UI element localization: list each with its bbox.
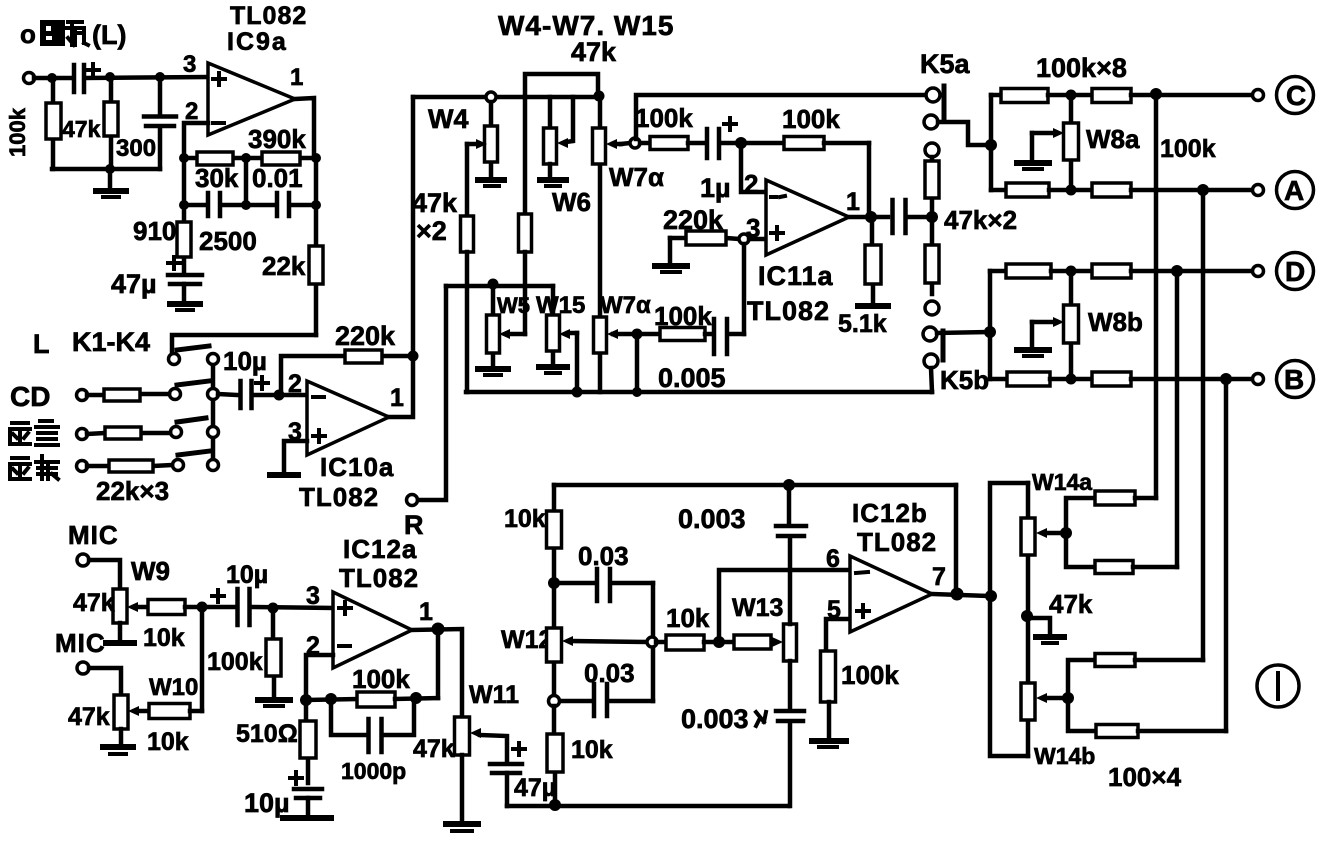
- capacitor 47u electrolytic: [168, 257, 202, 302]
- potentiometer W14a label: [1032, 469, 1092, 495]
- junction dot A row riser: [1197, 184, 1209, 196]
- pin 3 label IC9a: [183, 51, 196, 78]
- ground (100k bias): [258, 700, 290, 706]
- svg-text:47k: 47k: [1049, 589, 1093, 619]
- resistor 100k (B row right): [1092, 372, 1253, 386]
- part label IC12a: [343, 534, 417, 564]
- wire tone bottom bus: [466, 390, 932, 395]
- ground (W6): [540, 164, 566, 186]
- resistor 100 (D to W14a): [1066, 533, 1177, 574]
- svg-text:6: 6: [826, 545, 840, 573]
- junction dot W7a top: [594, 91, 605, 102]
- svg-text:W8a: W8a: [1086, 124, 1140, 154]
- svg-text:47µ: 47µ: [111, 269, 157, 299]
- wire pin3: [749, 237, 766, 242]
- svg-text:100k: 100k: [635, 103, 693, 133]
- junction dot W14a wiper: [1060, 527, 1072, 539]
- wire W10 10k riser to node: [200, 607, 205, 711]
- potentiometer W13: [734, 624, 797, 661]
- svg-text:390k: 390k: [248, 124, 306, 154]
- resistor 5.1k: [865, 221, 881, 303]
- svg-text:220k: 220k: [335, 321, 396, 351]
- svg-text:47k: 47k: [62, 116, 101, 142]
- svg-text:910: 910: [133, 216, 176, 246]
- value label 1000p: [341, 758, 406, 784]
- value label 47k (W11): [413, 735, 455, 763]
- value label 10k (series): [666, 603, 710, 633]
- svg-text:IC11a: IC11a: [758, 261, 834, 291]
- capacitor 0.01: [277, 193, 289, 216]
- svg-text:C: C: [1286, 80, 1306, 111]
- terminal CD input: [77, 390, 88, 401]
- svg-text:2: 2: [288, 370, 302, 398]
- junction dot B row riser: [1220, 373, 1232, 385]
- wire riser D: [1175, 271, 1180, 567]
- wire W14 input bracket: [990, 483, 1028, 756]
- potentiometer W15 label: [536, 292, 585, 319]
- resistor 22k (CD): [87, 389, 169, 401]
- switch contacts left column: [169, 354, 184, 471]
- junction dot 300 top: [155, 72, 165, 82]
- junction dot feedback left: [300, 694, 312, 706]
- terminal MIC 2: [77, 662, 89, 674]
- resistor 510 ohm: [300, 700, 316, 783]
- svg-text:W13: W13: [732, 594, 783, 622]
- svg-text:W11: W11: [469, 681, 519, 709]
- svg-text:TL082: TL082: [230, 2, 307, 30]
- resistor 100k (0.005 row): [642, 328, 711, 341]
- wire feedback row1: [184, 156, 316, 161]
- svg-text:1: 1: [390, 384, 404, 412]
- junction circle twin-T left bottom: [549, 696, 560, 707]
- switch K5b contact bottom: [924, 354, 938, 368]
- svg-text:K5a: K5a: [920, 49, 971, 79]
- junction dot 47k top: [105, 72, 115, 82]
- svg-text:10k: 10k: [147, 728, 189, 756]
- switch K5b contact top: [923, 327, 937, 341]
- capacitor 0.003 (bottom): [776, 661, 804, 806]
- value label 2500: [199, 226, 257, 256]
- junction dot W14 mid: [1021, 610, 1033, 622]
- svg-text:A: A: [1284, 175, 1304, 206]
- resistor 100k (IC12b pin5): [821, 651, 836, 738]
- part label TL082 (IC12b): [857, 527, 937, 557]
- wire pin5 to 100k: [826, 619, 850, 651]
- capacitor 10u (+ to IC10a): [241, 377, 269, 408]
- value label 100k x8: [1036, 53, 1127, 83]
- svg-text:W4: W4: [428, 104, 469, 134]
- wire W7a chain vertical: [598, 96, 603, 392]
- value label 22k: [262, 251, 306, 281]
- junction dot pin2 node: [274, 390, 285, 401]
- potentiometer W5 47k: [487, 289, 526, 366]
- resistor 100k (IC12a bias): [266, 608, 281, 697]
- junction dot bracket input: [985, 590, 997, 602]
- wire node up to K5a bus: [636, 95, 926, 139]
- svg-text:(L): (L): [92, 20, 126, 50]
- value label 0.03 (upper): [578, 541, 629, 571]
- svg-text:0.003: 0.003: [681, 704, 749, 734]
- pin 3 label IC12a: [306, 582, 320, 610]
- resistor 100 (A to W14b): [1068, 654, 1203, 699]
- switch contacts right column: [208, 354, 219, 471]
- value label 220k (IC11a): [663, 205, 724, 235]
- svg-text:W6: W6: [552, 187, 591, 217]
- svg-text:10µ: 10µ: [244, 788, 290, 818]
- svg-text:2500: 2500: [199, 226, 257, 256]
- value label 100k (bias): [207, 648, 263, 676]
- wire W11 bottom to ground: [460, 755, 465, 820]
- value label 100k (rotated): [5, 107, 30, 157]
- ground (IC10a pin3): [270, 472, 298, 478]
- potentiometer W11 47k: [455, 717, 508, 761]
- potentiometer W13 label: [732, 594, 783, 622]
- pin 2 label IC10a: [288, 370, 302, 398]
- svg-text:3: 3: [183, 51, 196, 78]
- value label 22k x3: [96, 476, 169, 506]
- value label 100k (risers): [1160, 135, 1216, 163]
- junction dot IC12b output: [951, 588, 964, 601]
- junction dot 47k x2 mid: [926, 211, 938, 223]
- wire R terminal up to W5/W15 bus: [418, 286, 446, 500]
- svg-text:IC12a: IC12a: [343, 534, 417, 564]
- ground (W11): [446, 824, 478, 831]
- resistor 100k (B row left): [990, 372, 1092, 386]
- svg-text:100k: 100k: [782, 104, 840, 134]
- svg-text:TL082: TL082: [299, 482, 379, 512]
- potentiometer W14a 47k: [1021, 483, 1063, 614]
- svg-text:22k×3: 22k×3: [96, 476, 169, 506]
- resistor 47k (left of x2): [461, 216, 474, 392]
- switch K1 lever: [177, 346, 209, 350]
- value label 10u (IC12a input): [226, 561, 268, 589]
- potentiometer W6 top lead: [548, 97, 553, 128]
- junction dots bottom bus: [572, 387, 643, 398]
- wire top staple: [525, 74, 598, 97]
- pin 3 label IC11a: [746, 213, 760, 243]
- junction dot feedback/output: [408, 351, 419, 362]
- junction dot bottom bus: [549, 799, 561, 811]
- node label 录音: [10, 421, 58, 445]
- wire bus to 10u cap: [218, 394, 237, 395]
- node label R: [404, 510, 424, 540]
- value label 47u: [111, 269, 157, 299]
- svg-text:47k: 47k: [68, 703, 110, 731]
- capacitor 0.005: [714, 319, 744, 354]
- value label 0.003 (top): [678, 504, 746, 534]
- value label 10k (top left): [504, 505, 546, 533]
- value label 47k (W10): [68, 703, 110, 731]
- junction circle W12 wiper node: [647, 637, 657, 647]
- value label 910: [133, 216, 176, 246]
- pin 1 label IC11a: [846, 188, 860, 216]
- wire MIC1 to W9: [89, 560, 120, 589]
- junction dots feedback row1: [179, 153, 321, 163]
- wire W4 wiper to 47k-left: [465, 144, 470, 216]
- value label 220k: [335, 321, 396, 351]
- junction dot twin-T left top: [548, 577, 560, 589]
- junction dot at 100k top: [47, 73, 57, 83]
- ground (W8b wiper): [1017, 322, 1049, 356]
- potentiometer W15 47k: [547, 286, 578, 364]
- resistor 10k (twin-T bottom left): [547, 706, 563, 805]
- ground (5.1k): [858, 303, 888, 309]
- junction dots feedback row2: [179, 200, 321, 210]
- value label 47k x2: [944, 205, 1017, 235]
- svg-text:510Ω: 510Ω: [236, 720, 298, 748]
- resistor 22k: [309, 205, 323, 335]
- pin 1 label IC10a: [390, 384, 404, 412]
- svg-text:W7α: W7α: [600, 292, 651, 319]
- junction dot D row pot: [1066, 266, 1077, 277]
- ground (10u decoupling): [283, 815, 331, 821]
- resistor 100k (W7a top row): [640, 137, 704, 150]
- potentiometer W6 label: [552, 187, 591, 217]
- capacitor 47k-row coupling: [893, 200, 928, 233]
- svg-text:TL082: TL082: [339, 563, 419, 593]
- wire W8a input vertical: [989, 95, 994, 190]
- terminal MIC 1: [77, 554, 89, 566]
- wire IC10a output: [389, 356, 413, 417]
- svg-text:100k: 100k: [352, 664, 410, 694]
- svg-text:W14b: W14b: [1034, 743, 1095, 769]
- output label A: [1277, 172, 1314, 209]
- resistor 100k (D row right): [1092, 264, 1253, 278]
- svg-text:TL082: TL082: [747, 296, 830, 326]
- svg-text:10µ: 10µ: [223, 346, 267, 376]
- wire pin2 drop: [741, 143, 766, 192]
- potentiometer W14b label: [1034, 743, 1095, 769]
- terminal: line input (L): [24, 73, 35, 84]
- svg-text:47k: 47k: [412, 188, 458, 218]
- op-amp IC11a: [766, 180, 849, 255]
- potentiometer W8a label: [1086, 124, 1140, 154]
- svg-text:0.005: 0.005: [658, 363, 726, 393]
- junction dot W14b wiper: [1062, 692, 1074, 704]
- ground (input network): [96, 169, 126, 197]
- capacitor input coupling (+): [74, 64, 99, 92]
- wire wiper node down to bus: [635, 334, 640, 392]
- op-amp IC9a: [208, 63, 295, 135]
- capacitor 2500: [208, 193, 220, 216]
- wire feedback to output: [436, 629, 441, 698]
- svg-text:MIC: MIC: [55, 628, 106, 658]
- svg-text:TL082: TL082: [857, 527, 937, 557]
- resistor 47k (input): [104, 82, 118, 169]
- svg-text:100k: 100k: [1160, 135, 1216, 163]
- value label 100k (IC12a feedback): [352, 664, 410, 694]
- svg-text:7: 7: [932, 563, 946, 591]
- value label 10k (W9): [143, 624, 185, 652]
- potentiometer W10 47k: [114, 695, 149, 729]
- resistor 10k (W10): [149, 704, 202, 719]
- junction dot pin6 tap: [713, 636, 725, 648]
- junction circle W7a wiper node: [621, 138, 640, 148]
- junction dot W5 top: [488, 279, 499, 290]
- switch label K5a: [920, 49, 971, 79]
- terminal A: [1253, 185, 1264, 196]
- wire riser A: [1201, 190, 1206, 660]
- svg-text:47k: 47k: [413, 735, 455, 763]
- resistor 100k (A row right): [1092, 183, 1253, 197]
- wire W15 wiper to bottom bus: [575, 333, 580, 392]
- switch K2 lever: [177, 381, 209, 385]
- junction dot W8a input: [985, 139, 997, 151]
- ground (W4): [478, 180, 504, 186]
- svg-text:100k: 100k: [207, 648, 263, 676]
- svg-text:100×4: 100×4: [1108, 762, 1182, 792]
- potentiometer W11 label: [469, 681, 519, 709]
- svg-text:1: 1: [290, 64, 303, 91]
- terminal D: [1253, 266, 1264, 277]
- svg-text:×2: ×2: [416, 216, 447, 246]
- wire feedback bus right leg: [954, 485, 959, 594]
- wire pin2 node to 220k: [281, 356, 345, 395]
- potentiometer W5 label: [497, 293, 530, 318]
- op-amp IC10a: [307, 381, 389, 455]
- part label TL082 (IC10a): [299, 482, 379, 512]
- resistor 47k (middle of x2): [519, 97, 532, 334]
- op-amp IC12b: [850, 556, 932, 632]
- svg-text:10k: 10k: [504, 505, 546, 533]
- svg-text:100k×8: 100k×8: [1036, 53, 1127, 83]
- terminal 录音 input: [77, 429, 88, 440]
- wire 10u to pin2: [254, 393, 307, 398]
- pin 3 label IC10a: [288, 418, 302, 446]
- switch K5a contact 2: [924, 115, 938, 129]
- svg-text:0.03: 0.03: [584, 658, 635, 688]
- node label L: [33, 329, 50, 359]
- wire twin-T bottom bus: [507, 804, 788, 809]
- svg-text:o: o: [20, 19, 36, 49]
- part label TL082: [230, 2, 307, 30]
- capacitor 1000p: [331, 698, 414, 752]
- ground (W5): [478, 369, 508, 375]
- capacitor 0.003 (top): [776, 485, 806, 624]
- pin 5 label IC12b: [827, 596, 841, 624]
- value label 10k (W10): [147, 728, 189, 756]
- value label 10u (decoupling): [244, 788, 290, 818]
- svg-text:3: 3: [306, 582, 320, 610]
- value label 0.01: [252, 163, 303, 193]
- switch contact 47k chain top: [925, 143, 939, 157]
- pin 2 label IC12a: [306, 632, 320, 660]
- part label IC10a: [320, 452, 394, 482]
- wire pin6 riser: [719, 570, 850, 642]
- potentiometer W8b: [1032, 271, 1079, 379]
- capacitor 1u (+): [707, 118, 736, 158]
- potentiometer W12: [547, 583, 649, 696]
- svg-text:10k: 10k: [666, 603, 710, 633]
- svg-text:D: D: [1285, 256, 1305, 287]
- capacitor 300: [144, 82, 176, 169]
- output label C: [1277, 77, 1314, 114]
- svg-text:W12: W12: [501, 626, 552, 654]
- junction dot C row riser: [1150, 88, 1162, 100]
- svg-text:W8b: W8b: [1088, 307, 1143, 337]
- svg-text:22k: 22k: [262, 251, 306, 281]
- resistor 47k (upper of 47k x2): [925, 157, 939, 212]
- part label IC11a: [758, 261, 834, 291]
- value label 47k (W9): [73, 589, 115, 617]
- svg-text:47µ: 47µ: [514, 774, 556, 802]
- node: input label 唱机(L): [20, 19, 126, 50]
- potentiometer W9 47k: [113, 589, 148, 623]
- junction dot pin3 node: [268, 603, 279, 614]
- junction dot bottom: [105, 164, 115, 174]
- resistor 100k (C row right): [1092, 89, 1253, 103]
- resistor 220k (IC11a pin3): [670, 231, 739, 245]
- pin 2 label IC11a: [744, 169, 758, 199]
- svg-text:K1-K4: K1-K4: [72, 327, 150, 357]
- ground (W14 mid): [1027, 618, 1064, 643]
- ground (W10): [103, 729, 133, 754]
- svg-text:K5b: K5b: [940, 365, 989, 395]
- resistor 30k: [197, 152, 233, 165]
- svg-text:220k: 220k: [663, 205, 724, 235]
- value label 47k (W14): [1049, 589, 1093, 619]
- pin 1 label IC12a: [419, 598, 433, 626]
- svg-text:W14a: W14a: [1032, 469, 1092, 495]
- wire feedback row2: [184, 158, 316, 205]
- value label 100x4: [1108, 762, 1182, 792]
- svg-text:47k×2: 47k×2: [944, 205, 1017, 235]
- wire 0.03 caps right leg: [651, 583, 656, 701]
- pin 7 label IC12b: [932, 563, 946, 591]
- wire IC11a output: [849, 215, 888, 220]
- title label W4-W7.W15: [498, 10, 674, 41]
- value label 47k (tone pots): [571, 37, 617, 67]
- value label 0.003 (bottom): [681, 704, 766, 734]
- resistor 22k (录像): [87, 460, 172, 472]
- svg-text:W5: W5: [497, 293, 530, 318]
- svg-text:IC10a: IC10a: [320, 452, 394, 482]
- part label IC12b: [852, 498, 928, 528]
- terminal B: [1253, 374, 1264, 385]
- wire IC12b top feedback bus: [554, 483, 956, 488]
- junction dot 1000p right: [410, 692, 422, 704]
- svg-text:47k: 47k: [73, 589, 115, 617]
- value label 100k (pin5): [841, 660, 899, 690]
- svg-text:IC9a: IC9a: [227, 28, 288, 56]
- ground (W8a wiper): [1017, 133, 1049, 169]
- svg-text:1: 1: [846, 188, 860, 216]
- potentiometer W10 label: [149, 674, 198, 701]
- potentiometer W7a label (top): [609, 162, 664, 192]
- wire cap to pin3: [252, 607, 333, 608]
- potentiometer W4 47k: [467, 102, 498, 177]
- resistor 100k (D row left): [990, 264, 1092, 278]
- potentiometer W6 47k: [544, 97, 574, 164]
- wire pin2 to feedback: [306, 655, 333, 700]
- capacitor 47u (W11 wiper +): [490, 743, 525, 806]
- value label 10k (bottom left): [571, 736, 613, 764]
- ground (220k): [655, 238, 687, 272]
- junction dot 0.003 top: [783, 479, 795, 491]
- potentiometer W7a (bottom) label: [600, 292, 651, 319]
- wire 1u to pin2/feedback: [721, 141, 784, 146]
- ground (W15): [539, 367, 567, 373]
- wire IC10a output up to tone bus: [411, 97, 416, 356]
- wire MIC2 to W10: [89, 668, 121, 695]
- junction dot mic mix node: [197, 602, 208, 613]
- wire pin3 node down to 0.005 row: [742, 244, 747, 334]
- switch K5b lever: [941, 331, 946, 360]
- ground (pin5 100k): [812, 741, 846, 747]
- value label 300: [116, 135, 156, 162]
- value label 30k: [195, 163, 239, 193]
- svg-text:W10: W10: [149, 674, 198, 701]
